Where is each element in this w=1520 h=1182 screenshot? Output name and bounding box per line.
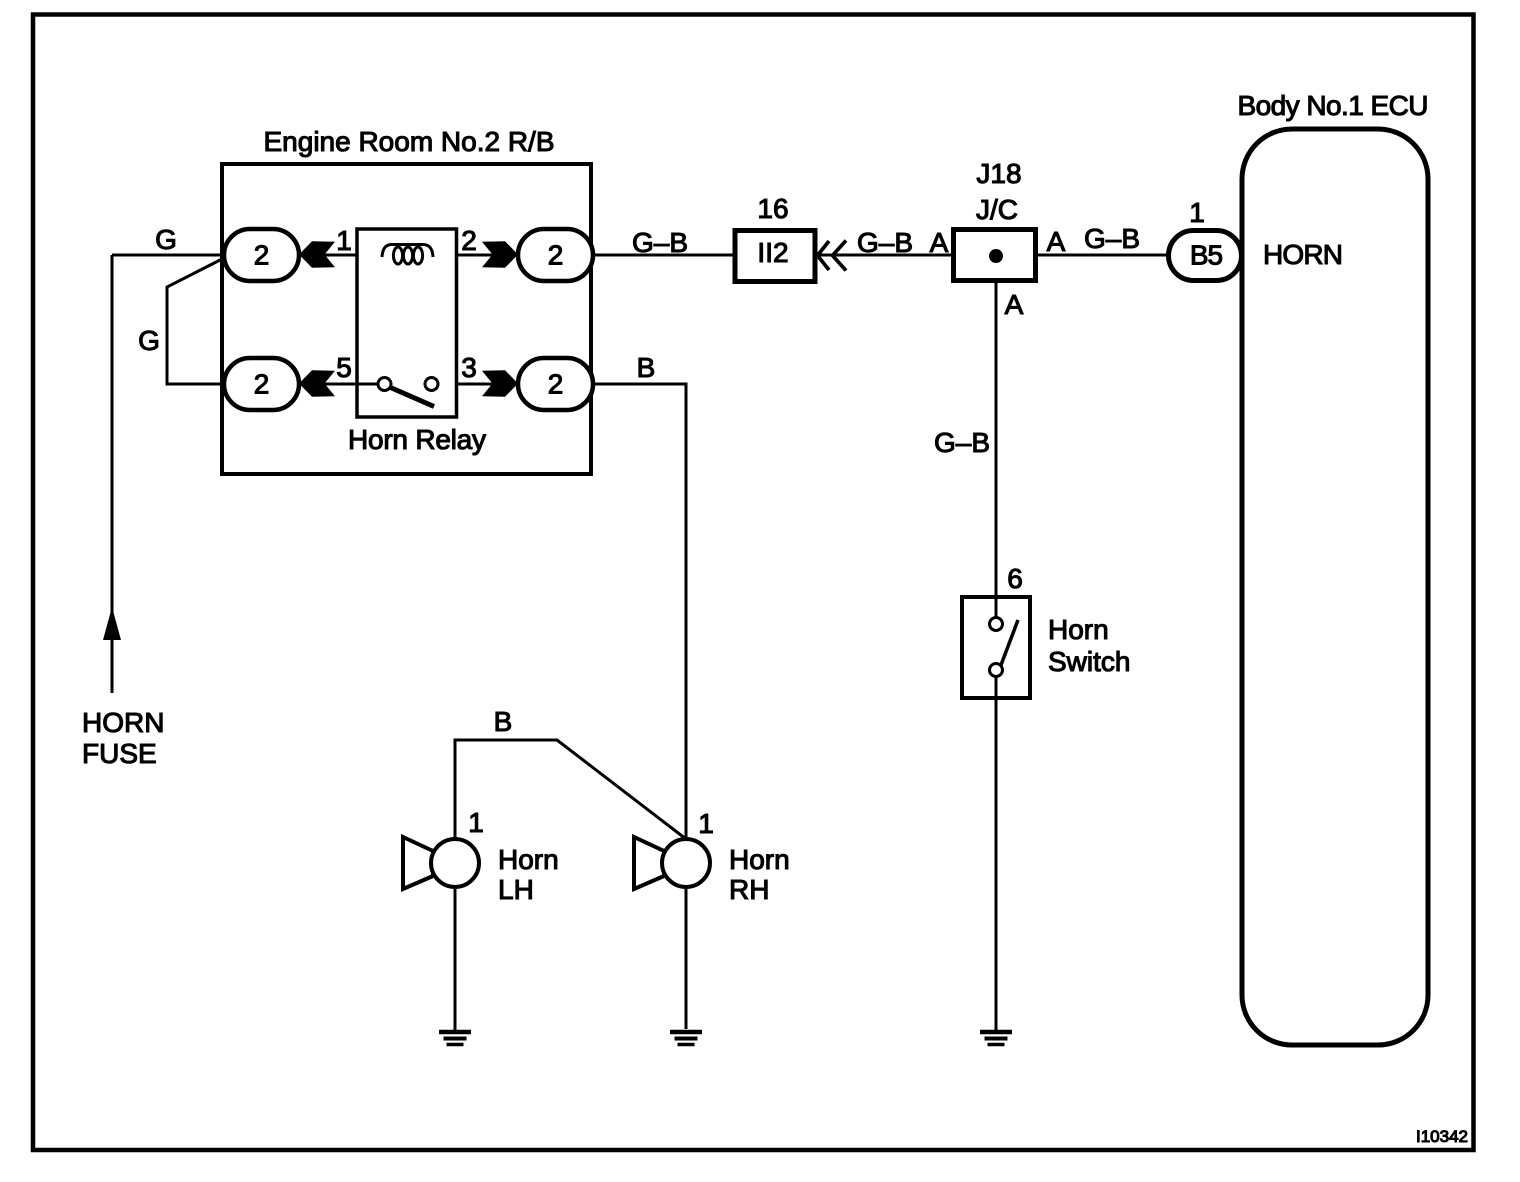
svg-text:1: 1 xyxy=(336,225,352,256)
svg-text:Horn: Horn xyxy=(1048,614,1109,645)
svg-text:B5: B5 xyxy=(1190,240,1223,271)
svg-text:1: 1 xyxy=(698,808,714,839)
svg-text:1: 1 xyxy=(468,807,484,838)
svg-text:I10342: I10342 xyxy=(1416,1127,1468,1146)
svg-text:A: A xyxy=(1047,226,1066,257)
svg-text:J/C: J/C xyxy=(976,194,1018,225)
svg-text:Switch: Switch xyxy=(1048,646,1130,677)
svg-text:G: G xyxy=(138,325,160,356)
svg-text:2: 2 xyxy=(548,240,564,271)
svg-text:B: B xyxy=(637,352,656,383)
svg-text:G: G xyxy=(155,224,177,255)
svg-text:LH: LH xyxy=(498,874,534,905)
svg-text:G–B: G–B xyxy=(857,227,913,258)
svg-text:Horn: Horn xyxy=(729,844,790,875)
svg-text:Horn: Horn xyxy=(498,844,559,875)
svg-text:II2: II2 xyxy=(757,237,788,268)
svg-text:1: 1 xyxy=(1189,197,1205,228)
svg-text:HORN: HORN xyxy=(1263,239,1343,270)
svg-text:G–B: G–B xyxy=(1084,223,1140,254)
svg-text:6: 6 xyxy=(1007,563,1023,594)
svg-text:FUSE: FUSE xyxy=(82,738,157,769)
svg-text:3: 3 xyxy=(461,352,477,383)
svg-text:A: A xyxy=(930,227,949,258)
svg-text:HORN: HORN xyxy=(82,707,164,738)
svg-text:B: B xyxy=(494,706,513,737)
svg-text:2: 2 xyxy=(461,225,477,256)
svg-text:J18: J18 xyxy=(976,158,1021,189)
svg-text:Body No.1 ECU: Body No.1 ECU xyxy=(1238,90,1429,121)
svg-text:16: 16 xyxy=(757,193,788,224)
svg-text:Horn Relay: Horn Relay xyxy=(348,424,486,455)
svg-text:2: 2 xyxy=(254,369,270,400)
svg-text:G–B: G–B xyxy=(632,227,688,258)
svg-text:5: 5 xyxy=(336,352,352,383)
svg-text:A: A xyxy=(1005,289,1024,320)
svg-text:2: 2 xyxy=(254,240,270,271)
svg-text:Engine Room No.2 R/B: Engine Room No.2 R/B xyxy=(264,126,555,157)
svg-text:2: 2 xyxy=(548,369,564,400)
svg-text:G–B: G–B xyxy=(934,427,990,458)
svg-text:RH: RH xyxy=(729,874,769,905)
